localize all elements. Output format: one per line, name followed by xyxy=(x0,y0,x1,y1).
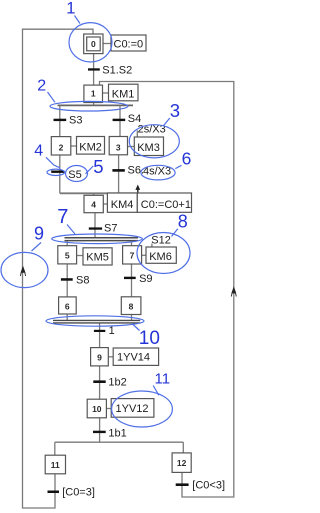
annotation 8 ellipse around S12 KM6 xyxy=(137,233,190,274)
transition [C0=3] xyxy=(48,486,95,498)
wire step5 to step6 xyxy=(66,264,68,297)
svg-text:C0:=C0+1: C0:=C0+1 xyxy=(141,199,191,211)
svg-text:0: 0 xyxy=(91,39,96,49)
step 1 xyxy=(84,85,103,102)
action box 1YV12 xyxy=(111,399,154,418)
annotation 2 leader xyxy=(48,92,56,102)
step 9 xyxy=(91,348,109,366)
condition tick above KM6 xyxy=(151,244,153,248)
step 6 xyxy=(59,297,77,314)
arrow up on right feedback xyxy=(231,286,236,296)
wire step3 to convergence xyxy=(118,155,120,194)
svg-text:12: 12 xyxy=(177,458,187,468)
step 12 xyxy=(172,453,191,473)
svg-text:C0:=0: C0:=0 xyxy=(114,38,144,50)
connector step3 to KM3 xyxy=(128,146,135,148)
connector step4 to KM4 xyxy=(103,203,107,205)
transition 1 (always true) xyxy=(94,325,115,337)
transition S3 xyxy=(54,114,83,126)
wire left branch S3 to step2 xyxy=(59,105,61,136)
annotation 6 leader xyxy=(175,165,181,168)
wire step8 to AND convergence xyxy=(131,314,133,320)
transition S4 xyxy=(113,113,142,125)
step 7 xyxy=(123,246,142,264)
annotation 6 ellipse around 4s/X3 xyxy=(141,165,175,180)
connector step9 to 1YV14 xyxy=(108,356,113,358)
transition [C0<3] xyxy=(176,479,225,491)
annotation 11 ellipse around 1YV12 xyxy=(112,391,173,427)
svg-text:10: 10 xyxy=(92,404,102,414)
annotation 7 ellipse around AND divergence xyxy=(52,234,143,244)
step 5 xyxy=(58,246,77,264)
action box KM3 xyxy=(134,137,163,156)
step 4 xyxy=(84,195,103,212)
svg-text:6: 6 xyxy=(182,148,192,168)
connector step7 to KM6 xyxy=(142,254,146,256)
arrow up on left feedback xyxy=(20,266,25,276)
action box C0:=0 xyxy=(111,35,146,51)
connector step5 to KM5 xyxy=(77,255,83,257)
svg-text:9: 9 xyxy=(34,223,44,243)
condition tick above KM3 xyxy=(136,130,138,136)
svg-text:4: 4 xyxy=(34,143,43,160)
svg-text:1b1: 1b1 xyxy=(108,427,126,439)
wire right feedback loop (step12 back to step 1) xyxy=(100,82,234,498)
svg-text:7: 7 xyxy=(57,206,68,228)
svg-text:1b2: 1b2 xyxy=(108,377,126,389)
svg-text:S7: S7 xyxy=(104,223,117,235)
svg-text:KM5: KM5 xyxy=(86,252,109,264)
OR divergence line bottom xyxy=(55,441,184,443)
wire left feedback loop (step11 back to initial step 0) xyxy=(23,29,94,508)
transition S6.4s/X3 xyxy=(112,164,171,177)
svg-text:8: 8 xyxy=(178,212,188,232)
svg-text:1: 1 xyxy=(66,0,75,18)
annotation 5 leader xyxy=(86,166,94,174)
svg-text:S1.S2: S1.S2 xyxy=(102,65,132,77)
svg-text:10: 10 xyxy=(139,328,160,349)
svg-text:1: 1 xyxy=(91,89,96,99)
svg-text:KM2: KM2 xyxy=(79,142,102,154)
action box 1YV14 xyxy=(113,348,158,365)
AND convergence double bar xyxy=(53,319,140,321)
svg-text:KM6: KM6 xyxy=(149,251,172,263)
svg-text:1: 1 xyxy=(109,325,115,337)
wire step6 to AND convergence xyxy=(66,314,68,320)
wire convergence to step4 xyxy=(93,193,95,195)
wire convergence to step9 xyxy=(99,324,101,348)
svg-text:3: 3 xyxy=(170,100,180,121)
annotation 4 leader xyxy=(46,157,60,168)
transition S9 xyxy=(124,273,153,285)
svg-text:KM1: KM1 xyxy=(112,88,135,100)
svg-text:9: 9 xyxy=(97,353,102,363)
svg-text:4: 4 xyxy=(91,200,96,210)
wire main axis step0 to step1 xyxy=(93,54,95,86)
transition S8 xyxy=(61,274,90,286)
action box KM2 xyxy=(77,137,105,155)
transition S5 xyxy=(51,169,82,181)
OR divergence line xyxy=(58,104,134,106)
annotation 3 ellipse around 2s/X3 and KM3 xyxy=(129,125,179,158)
AND divergence double bar xyxy=(65,237,139,239)
wire drop to step12 xyxy=(182,442,184,453)
annotation 3 leader xyxy=(163,118,170,126)
svg-text:1YV14: 1YV14 xyxy=(117,352,150,364)
svg-text:S5: S5 xyxy=(68,169,81,181)
svg-text:2: 2 xyxy=(59,143,64,153)
action box KM6 xyxy=(146,247,176,263)
annotation 8 leader xyxy=(172,229,178,237)
wire step10 to OR divergence bottom xyxy=(99,418,101,442)
transition S7 xyxy=(89,223,118,235)
step 3 xyxy=(109,137,127,155)
wire AND right drop to step7 xyxy=(131,241,133,245)
action box C0:=C0+1 xyxy=(137,193,191,212)
svg-text:S12: S12 xyxy=(151,234,171,246)
annotation 1 ellipse around step 0 xyxy=(69,23,112,62)
transition 1b2 xyxy=(93,377,126,389)
wire step1 to OR divergence xyxy=(93,103,95,105)
step 11 xyxy=(45,455,65,474)
step 0 (initial step, double box) xyxy=(84,34,103,54)
action box KM4 xyxy=(107,193,137,212)
annotation 7 leader xyxy=(67,225,75,235)
action box KM5 xyxy=(83,248,112,265)
transition S1.S2 xyxy=(88,65,132,77)
svg-text:S9: S9 xyxy=(139,273,152,285)
annotation 4 ellipse around S5 transition bar xyxy=(47,169,65,175)
transition 1b1 xyxy=(93,427,127,439)
wire drop to step11 xyxy=(54,442,56,455)
svg-text:S3: S3 xyxy=(69,114,82,126)
svg-text:8: 8 xyxy=(129,302,134,312)
svg-text:5: 5 xyxy=(93,156,103,177)
svg-text:1YV12: 1YV12 xyxy=(116,403,149,415)
annotation 5 ellipse around S5 label xyxy=(66,166,88,182)
svg-text:11: 11 xyxy=(51,460,60,470)
action box KM1 xyxy=(109,84,139,101)
svg-text:6: 6 xyxy=(65,302,70,312)
svg-text:S8: S8 xyxy=(76,274,89,286)
step 8 xyxy=(121,297,141,315)
wire step7 to step8 xyxy=(131,264,133,297)
svg-text:[C0=3]: [C0=3] xyxy=(62,486,95,498)
wire AND left drop to step5 xyxy=(66,241,68,245)
wire right branch S4 to step3 xyxy=(119,105,121,136)
svg-text:5: 5 xyxy=(65,250,70,260)
connector step10 to 1YV12 xyxy=(106,408,111,410)
arrow up into convergence xyxy=(137,190,139,194)
annotation 10 ellipse around AND convergence xyxy=(46,316,144,326)
wire step2 to convergence xyxy=(59,155,61,193)
connector step2 to KM2 xyxy=(71,145,77,147)
svg-text:3: 3 xyxy=(116,143,121,153)
svg-text:KM3: KM3 xyxy=(137,142,160,154)
annotation 10 leader xyxy=(132,324,140,331)
annotation 11 leader xyxy=(153,386,159,396)
annotation 9 ellipse around left arrow xyxy=(1,252,48,287)
svg-text:KM4: KM4 xyxy=(111,199,134,211)
annotation 9 leader xyxy=(32,243,42,252)
svg-text:7: 7 xyxy=(130,250,135,260)
wire step4 to AND divergence xyxy=(94,213,96,237)
annotation 1 leader xyxy=(75,16,81,24)
svg-text:[C0<3]: [C0<3] xyxy=(192,479,225,491)
wire step9 to step10 xyxy=(99,366,101,399)
connector step0 to action xyxy=(103,43,111,45)
step 10 xyxy=(87,399,106,418)
step 2 xyxy=(51,137,71,155)
svg-text:11: 11 xyxy=(155,371,171,388)
OR convergence line xyxy=(60,192,138,194)
svg-text:2: 2 xyxy=(37,78,46,95)
annotation 2 ellipse around OR divergence xyxy=(50,101,128,111)
connector step1 to KM1 xyxy=(103,92,109,94)
